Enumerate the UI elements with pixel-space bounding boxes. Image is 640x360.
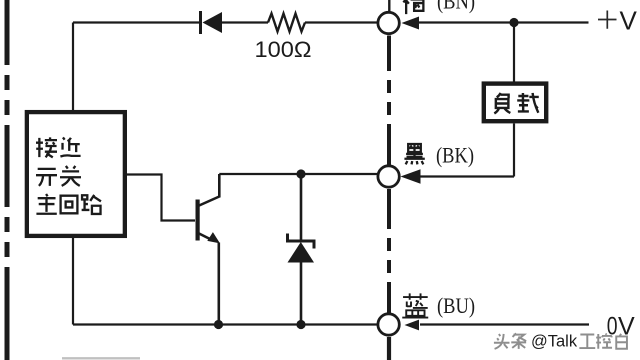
zener ZD1 triangle <box>288 242 315 263</box>
svg-text:(BN): (BN) <box>437 0 475 14</box>
wire: to BK arrow <box>420 175 514 177</box>
wire: diode to resistor <box>222 21 268 23</box>
transistor Q1 emitter stroke <box>198 233 212 240</box>
arrow into BN terminal <box>402 17 420 30</box>
box label 接近 <box>36 137 57 157</box>
svg-text:(BK): (BK) <box>436 143 474 168</box>
svg-text:@Talk: @Talk <box>531 333 578 351</box>
wire: bottom rail to BU terminal <box>73 323 378 325</box>
load box <box>484 84 546 122</box>
load label 负载 <box>494 93 510 113</box>
terminal BU circle <box>378 314 399 335</box>
junction: zener to bottom rail <box>296 320 305 329</box>
box label 主回路 <box>36 194 56 214</box>
wire: collector rail to BK terminal <box>219 173 378 175</box>
terminal BN circle <box>378 12 399 33</box>
wire stub below BU terminal <box>387 337 391 360</box>
wire: load bottom down <box>513 124 515 177</box>
watermark 头条 @Talk工控白 <box>494 333 627 349</box>
arrow into BK terminal <box>401 169 421 184</box>
+V supply label <box>598 5 638 35</box>
resistor R1 zigzag <box>268 14 305 32</box>
box label 开关 <box>36 169 57 186</box>
junction: emitter to bottom rail <box>214 320 223 329</box>
transistor Q1 collector stroke <box>198 174 219 206</box>
proximity switch main-circuit box <box>27 112 125 236</box>
node label 蓝 (blue) <box>402 293 428 317</box>
junction: zener top on collector rail <box>296 169 305 178</box>
zener ZD1 cathode bar with tabs <box>288 234 315 249</box>
wire: box bottom to 0V run <box>72 238 74 325</box>
phantom dashed wire BN to BK <box>387 36 391 166</box>
node label 黑 (black) <box>404 144 424 164</box>
transistor Q1 emitter arrowhead <box>207 232 220 243</box>
svg-text:V: V <box>620 5 638 35</box>
terminal BK circle <box>378 166 399 187</box>
wire: zener bottom lead <box>300 262 303 325</box>
wire: zener top lead <box>300 174 303 240</box>
wire stub above BN terminal <box>388 0 390 12</box>
node label 褐 (brown) <box>403 0 424 14</box>
transistor Q1 base bar <box>196 200 200 241</box>
diode D1 triangle <box>203 12 223 33</box>
wire: resistor to BN terminal <box>305 21 378 23</box>
wire: box to transistor base <box>123 175 195 221</box>
phantom dashed wire BK to BU <box>387 189 391 313</box>
svg-text:100Ω: 100Ω <box>255 37 312 62</box>
wire: 0V rail <box>420 323 589 325</box>
wire: junction down to load <box>513 23 515 82</box>
wire: emitter down to bottom rail <box>218 243 221 325</box>
svg-text:(BU): (BU) <box>437 293 475 318</box>
wire: +V rail <box>419 21 589 23</box>
sensor enclosure phantom line (bottom remnant) <box>62 357 140 359</box>
sensor enclosure phantom line (left border) <box>5 0 10 360</box>
wire: box top to top rail corner <box>72 23 74 113</box>
diode D1 cathode bar <box>199 11 202 34</box>
junction on +V rail <box>509 18 518 27</box>
arrow into BU terminal <box>405 320 420 331</box>
wire: top rail left segment <box>73 21 199 23</box>
